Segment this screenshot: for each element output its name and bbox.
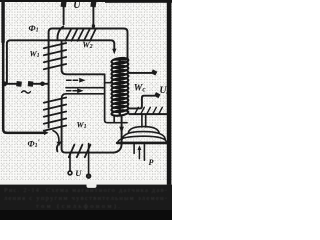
- svg-text:том (сильфоном).: том (сильфоном).: [36, 203, 120, 210]
- svg-text:Рис. 2-14. Схема магнитного да: Рис. 2-14. Схема магнитного датчика дав-: [4, 187, 167, 194]
- svg-text:ления с упругим чувствительным: ления с упругим чувствительным элемен-: [4, 195, 167, 202]
- svg-text:U: U: [73, 0, 81, 11]
- svg-text:P: P: [149, 158, 154, 167]
- svg-text:U: U: [75, 168, 82, 178]
